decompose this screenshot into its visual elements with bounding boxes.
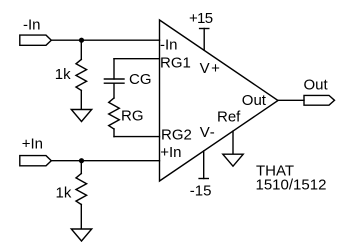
svg-text:Ref: Ref bbox=[217, 108, 241, 125]
svg-text:Out: Out bbox=[304, 77, 329, 94]
svg-text:+15: +15 bbox=[189, 10, 213, 27]
svg-text:RG2: RG2 bbox=[161, 127, 192, 144]
svg-text:+In: +In bbox=[160, 144, 181, 161]
svg-text:-In: -In bbox=[23, 16, 41, 33]
svg-text:1510/1512: 1510/1512 bbox=[256, 176, 327, 193]
svg-text:CG: CG bbox=[129, 71, 152, 88]
svg-text:-15: -15 bbox=[190, 182, 212, 199]
svg-text:1k: 1k bbox=[56, 185, 72, 202]
svg-text:Out: Out bbox=[242, 92, 267, 109]
svg-text:-In: -In bbox=[160, 36, 178, 53]
svg-text:+In: +In bbox=[22, 136, 43, 153]
svg-text:RG1: RG1 bbox=[160, 54, 191, 71]
svg-text:V+: V+ bbox=[200, 60, 222, 77]
svg-text:RG: RG bbox=[121, 107, 144, 124]
svg-text:1k: 1k bbox=[55, 66, 71, 83]
svg-text:V-: V- bbox=[200, 124, 216, 141]
